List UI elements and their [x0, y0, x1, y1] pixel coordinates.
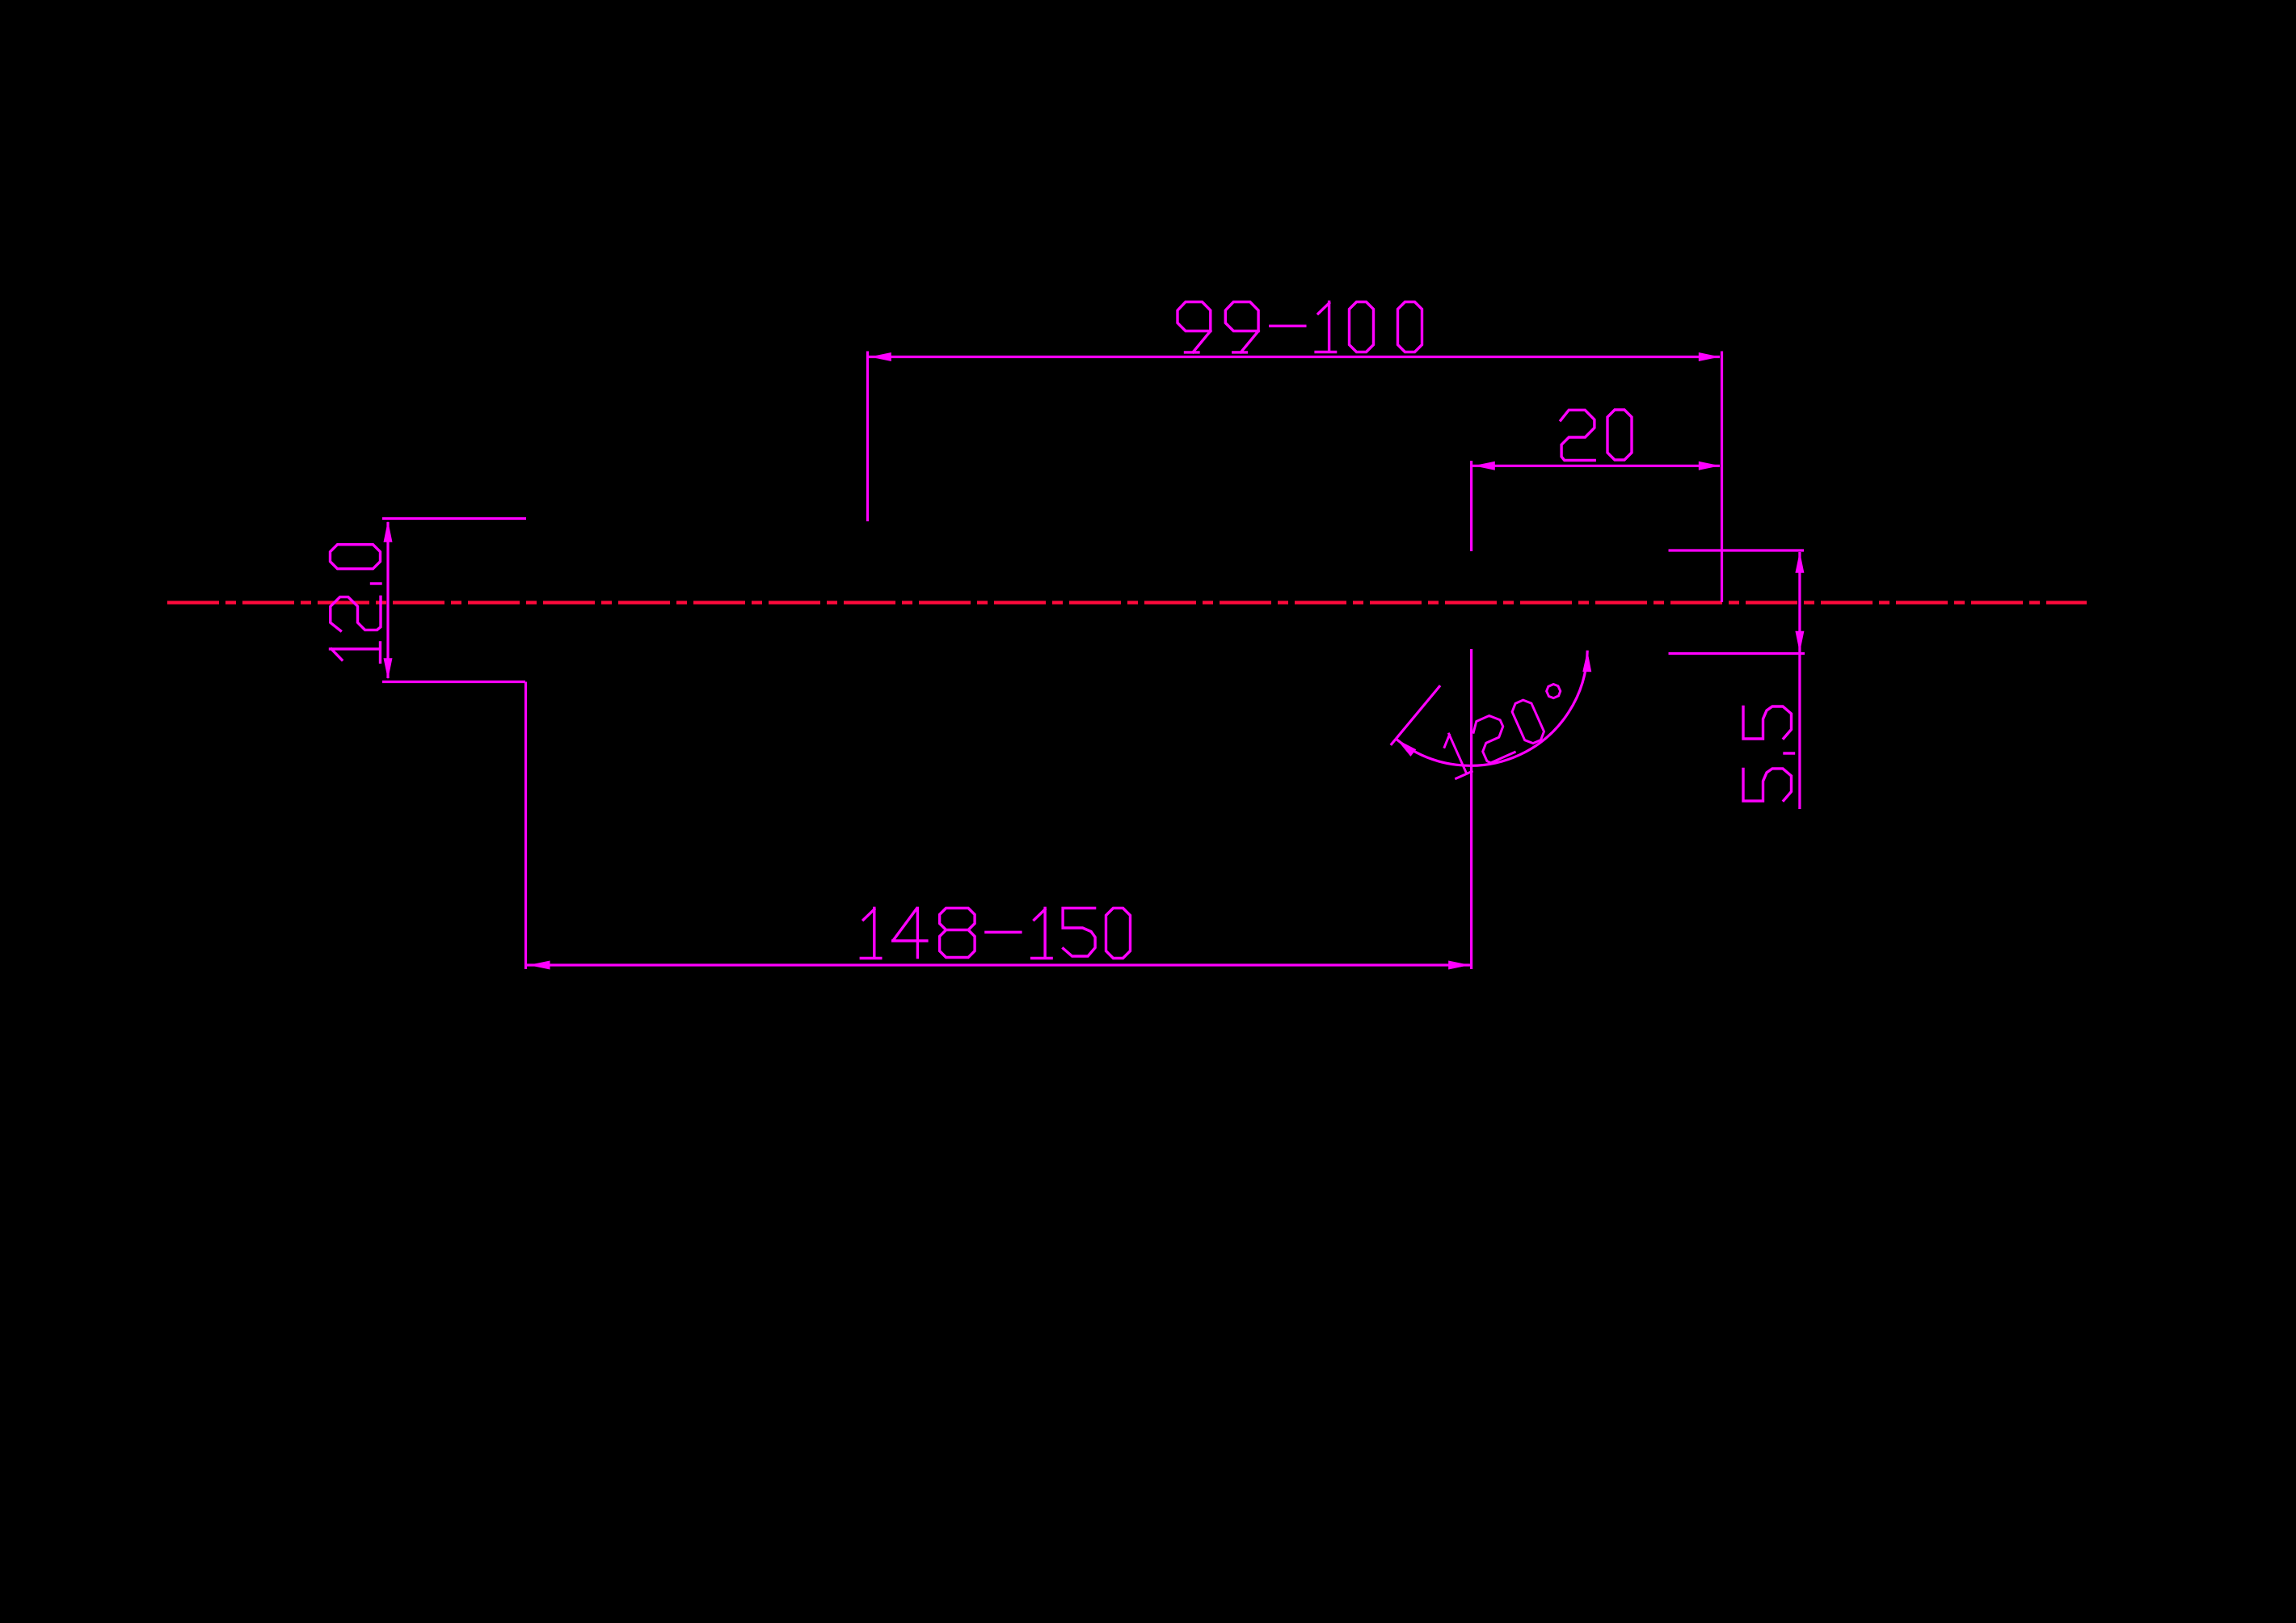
center line (red dash-dot) — [167, 601, 2087, 604]
5.5 rotated — [1743, 769, 1792, 801]
angular arc — [1397, 651, 1587, 766]
99-100 — [1177, 302, 1211, 352]
extension line left (shared 148-150) — [524, 682, 527, 970]
148-150 — [861, 908, 881, 959]
120 deg rotated -26 — [1439, 731, 1472, 778]
left step: bottom edge line — [382, 681, 525, 683]
5.5 top line — [1669, 549, 1805, 551]
dim line 12.0 — [386, 522, 389, 678]
angular leg vertical (also ext 148-150 right) — [1470, 649, 1472, 969]
ext line 20 left — [1470, 461, 1472, 551]
angular slanted extension — [1391, 685, 1440, 745]
arrowheads — [384, 352, 1805, 970]
left step: top edge line — [382, 517, 526, 520]
20 — [1561, 410, 1595, 460]
ext line 99-100 left — [866, 352, 869, 522]
5.5 bottom line — [1669, 652, 1805, 655]
ext line right shared 99-100/20 — [1721, 352, 1723, 603]
12.0 rotated — [331, 643, 381, 663]
dim line 148-150 — [527, 963, 1472, 966]
dim line 20 — [1472, 465, 1720, 467]
5.5 dim shaft — [1798, 552, 1801, 809]
dim line 99-100 — [868, 356, 1720, 358]
